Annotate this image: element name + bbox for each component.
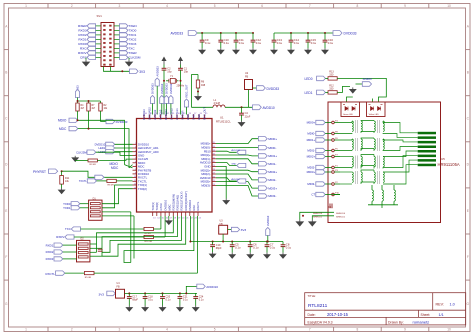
svg-text:GTXC: GTXC <box>159 203 163 211</box>
capacitor C10 <box>220 32 222 34</box>
svg-text:F: F <box>5 255 7 259</box>
svg-text:TXD1: TXD1 <box>128 33 136 37</box>
wire R7 to MDC <box>88 111 90 129</box>
module pin P3 <box>332 171 335 174</box>
svg-text:10k: 10k <box>65 180 70 183</box>
svg-text:AVDD10: AVDD10 <box>231 178 240 181</box>
module pin P5 <box>332 149 335 152</box>
svg-text:9: 9 <box>404 4 406 8</box>
port AVDD33 small <box>216 151 237 152</box>
svg-text:8: 8 <box>357 4 359 8</box>
svg-text:RTL8211: RTL8211 <box>308 303 328 309</box>
svg-text:25MHz: 25MHz <box>177 85 185 88</box>
wire D2 outputs <box>90 243 97 245</box>
svg-text:22: 22 <box>190 217 193 219</box>
port AVDD10 small <box>216 178 237 181</box>
svg-text:AVDD33: AVDD33 <box>363 78 372 81</box>
wire crystal left <box>163 70 165 114</box>
resistor R6 <box>197 75 199 81</box>
staircase wires from U1 bottom <box>97 216 174 244</box>
capacitor C19 <box>212 241 214 243</box>
svg-text:TXER: TXER <box>128 51 137 55</box>
svg-text:RXER: RXER <box>78 24 87 28</box>
svg-text:19p: 19p <box>167 70 172 73</box>
svg-text:EasyEDA V4.9.3: EasyEDA V4.9.3 <box>308 320 333 324</box>
transformer T4 output wires <box>383 160 418 172</box>
svg-text:0.1u: 0.1u <box>166 299 171 302</box>
svg-text:DVDD33: DVDD33 <box>142 109 146 120</box>
svg-text:3V3: 3V3 <box>99 292 105 296</box>
svg-text:RXDV: RXDV <box>56 235 64 239</box>
SV1 ground right <box>128 58 130 60</box>
capacitor C18 <box>144 292 146 294</box>
svg-text:14: 14 <box>157 217 160 219</box>
svg-text:GND: GND <box>197 114 201 120</box>
svg-text:0.1u: 0.1u <box>270 246 276 250</box>
svg-text:DVDD33: DVDD33 <box>151 83 155 94</box>
capacitor C9 <box>201 32 203 34</box>
svg-text:CT: CT <box>311 193 315 197</box>
rj45 pin bars <box>418 132 436 135</box>
svg-text:D: D <box>5 163 8 167</box>
svg-text:21: 21 <box>186 217 189 219</box>
svg-text:LED0: LED0 <box>98 150 105 154</box>
SV1 right pin port TXD2 <box>119 37 128 41</box>
svg-text:RXC: RXC <box>80 47 87 51</box>
port MDI2- ic side <box>216 174 258 180</box>
svg-text:MDI0-: MDI0- <box>307 132 315 136</box>
port MDI3- ic side <box>216 185 258 196</box>
capacitor C24 <box>195 293 197 296</box>
svg-text:RXD2: RXD2 <box>46 250 54 254</box>
svg-text:FB: FB <box>245 76 249 79</box>
ground U1 bottom <box>168 216 170 219</box>
svg-text:10: 10 <box>447 328 451 332</box>
svg-text:TXEN: TXEN <box>128 24 136 28</box>
svg-text:22uF: 22uF <box>245 115 251 118</box>
svg-text:MDC: MDC <box>59 127 67 131</box>
svg-text:2017-10-15: 2017-10-15 <box>327 312 349 317</box>
wire D1 row4 <box>102 215 134 217</box>
wire MDIO <box>78 120 125 164</box>
svg-text:7: 7 <box>309 4 311 8</box>
svg-text:RXCTL: RXCTL <box>46 272 56 276</box>
svg-text:0.1u: 0.1u <box>311 41 317 45</box>
svg-text:GND: GND <box>192 114 196 120</box>
svg-text:G: G <box>467 302 470 306</box>
port MDI0+ ic side <box>216 139 258 144</box>
svg-text:TXC: TXC <box>128 47 135 51</box>
svg-text:330: 330 <box>329 88 334 91</box>
svg-text:MDI1-: MDI1- <box>268 162 276 166</box>
led yellow inside U5 <box>367 102 386 117</box>
wire RXCTL long <box>94 272 198 274</box>
led green inside U5 <box>341 102 360 117</box>
transformer T2 primary winding <box>340 139 352 140</box>
svg-text:VDDSR: VDDSR <box>181 111 185 120</box>
svg-text:Yellow LED: Yellow LED <box>369 114 380 116</box>
svg-text:SHIELD0: SHIELD0 <box>336 213 346 215</box>
capacitor C1 <box>180 65 182 69</box>
SV1 left pin port RXD2 <box>87 33 96 37</box>
svg-text:F: F <box>467 255 469 259</box>
capacitor C5 <box>231 241 233 243</box>
svg-text:948: 948 <box>201 84 206 87</box>
svg-text:AVDD33: AVDD33 <box>171 32 184 36</box>
resistor R5 <box>65 272 85 274</box>
SV1 left pin port RXD3 <box>87 28 96 32</box>
crystal Y1 <box>166 80 169 82</box>
svg-text:SHIELD1: SHIELD1 <box>313 217 323 219</box>
svg-text:16: 16 <box>166 217 169 219</box>
svg-text:1/1: 1/1 <box>439 313 444 317</box>
port 3V3 U3 <box>228 229 232 231</box>
wire U2 down <box>247 90 249 108</box>
svg-text:Green LED: Green LED <box>343 114 354 116</box>
svg-text:MDI3-: MDI3- <box>268 194 276 198</box>
wire U3 down <box>222 234 224 241</box>
svg-text:R7: R7 <box>92 105 96 107</box>
svg-text:AVDD10: AVDD10 <box>263 106 275 110</box>
svg-text:MDC: MDC <box>167 204 171 210</box>
port MDI0- ic side <box>216 146 258 148</box>
wire U2 to DVDD33 <box>253 87 257 89</box>
svg-text:TXD2: TXD2 <box>128 38 136 42</box>
SV1 right pin port TXD0 <box>119 28 128 32</box>
svg-text:68pF: 68pF <box>216 247 222 250</box>
port AVDD10 bottom right <box>197 284 205 289</box>
svg-text:TXD[0]: TXD[0] <box>155 202 159 211</box>
svg-text:RXD[2](AN1): RXD[2](AN1) <box>176 195 180 211</box>
SV1 right pin port CLK25M <box>119 55 128 59</box>
svg-text:A: A <box>467 25 470 29</box>
svg-text:MDI2-: MDI2- <box>268 178 276 182</box>
module pin P8 <box>332 132 335 135</box>
svg-text:AVDD10: AVDD10 <box>160 83 164 94</box>
port AVDD33 LED <box>356 83 363 85</box>
svg-text:5: 5 <box>214 4 216 8</box>
svg-text:CKXTAL1: CKXTAL1 <box>175 108 179 120</box>
transformer T3 primary winding <box>340 156 352 158</box>
wire RXDV long <box>65 235 74 239</box>
svg-text:DVDD10: DVDD10 <box>188 199 192 210</box>
module pin P7 <box>332 155 335 158</box>
svg-text:0.1u: 0.1u <box>253 246 259 250</box>
svg-text:Date:: Date: <box>308 313 316 317</box>
svg-text:U5: U5 <box>441 157 445 161</box>
svg-text:FB: FB <box>117 286 120 289</box>
svg-text:A: A <box>5 25 8 29</box>
svg-text:E: E <box>5 209 7 213</box>
svg-text:DVDD33: DVDD33 <box>344 32 357 36</box>
svg-text:10k: 10k <box>104 108 109 110</box>
ic U1 left pins <box>133 143 137 145</box>
transformer center taps <box>372 190 373 201</box>
capacitor C14 <box>290 32 292 34</box>
svg-text:15: 15 <box>162 217 165 219</box>
svg-text:18: 18 <box>174 217 177 219</box>
capacitor C20 <box>162 292 164 294</box>
SV1 right pin port TXC <box>119 46 128 50</box>
resistor R4 <box>76 103 79 111</box>
svg-text:19p: 19p <box>184 70 189 73</box>
ic U1 left pin numbers <box>134 143 137 189</box>
svg-text:C: C <box>467 117 470 121</box>
svg-text:C: C <box>5 117 8 121</box>
svg-text:24: 24 <box>199 217 202 219</box>
junction R11 <box>61 170 63 172</box>
resistor R11 <box>61 171 63 175</box>
svg-text:TXCTL: TXCTL <box>79 180 88 183</box>
svg-text:R3 0R: R3 0R <box>90 164 97 166</box>
port AVDD10 L1 <box>253 105 262 110</box>
svg-text:RXD1: RXD1 <box>46 243 54 247</box>
svg-text:SHIELD1: SHIELD1 <box>336 217 346 219</box>
svg-text:MDI2-: MDI2- <box>307 166 315 170</box>
svg-text:MDI2+: MDI2+ <box>268 170 277 174</box>
capacitor C4 <box>241 107 243 113</box>
svg-text:TXD1: TXD1 <box>63 206 71 210</box>
module pin P4 <box>332 121 335 124</box>
port MDI3+ ic side <box>216 182 258 189</box>
svg-text:0.1u: 0.1u <box>148 299 153 302</box>
svg-text:R4: R4 <box>81 105 85 107</box>
ground SHIELD0 <box>297 220 304 226</box>
port MDI1- ic side <box>216 159 258 164</box>
svg-text:MDI1+: MDI1+ <box>307 138 316 142</box>
ground LED <box>350 87 356 93</box>
SV1 left pin port RXD1 <box>87 37 96 41</box>
port DVDD33 rail <box>333 31 342 36</box>
wire DVDD33 rail <box>274 32 333 34</box>
svg-text:PHYRST: PHYRST <box>33 170 46 174</box>
svg-text:20: 20 <box>182 217 185 219</box>
svg-text:1: 1 <box>25 4 27 8</box>
svg-text:R10 0R: R10 0R <box>145 241 153 243</box>
ground C4 <box>239 121 245 127</box>
svg-text:CLK25M: CLK25M <box>76 150 87 154</box>
transformer T2 output wires <box>383 139 418 142</box>
svg-text:LED1: LED1 <box>98 146 105 150</box>
svg-text:2: 2 <box>71 328 73 332</box>
svg-text:AVDD33: AVDD33 <box>153 109 157 120</box>
wire D1 row3 <box>102 211 131 213</box>
transformer T1 output wires <box>383 121 418 133</box>
junction L1 <box>241 106 243 108</box>
port 3V3 top <box>130 69 139 74</box>
svg-text:0.1u: 0.1u <box>256 41 262 45</box>
svg-text:MDC: MDC <box>111 166 119 170</box>
capacitor C2 <box>163 65 165 69</box>
svg-text:R2: R2 <box>104 105 108 107</box>
port DVDD33 U2 <box>257 86 266 91</box>
capacitor C8 <box>282 242 284 245</box>
wire R2 to DVDD33 port <box>100 111 102 122</box>
SV1 right pin port TXER <box>119 51 128 55</box>
svg-text:9: 9 <box>404 328 406 332</box>
svg-text:0.1u: 0.1u <box>235 246 241 250</box>
resistor R10 <box>144 235 153 238</box>
svg-text:RXD2: RXD2 <box>78 33 87 37</box>
svg-text:Drawn By:: Drawn By: <box>388 320 404 324</box>
svg-text:0.1u: 0.1u <box>224 41 230 45</box>
transformer T1 primary winding <box>340 121 352 123</box>
svg-text:6: 6 <box>261 328 263 332</box>
power flag C2 <box>162 58 165 65</box>
port MDI2+ ic side <box>216 170 258 172</box>
transformer T4 secondary winding <box>361 172 362 182</box>
svg-text:LED0: LED0 <box>305 77 313 81</box>
svg-text:TXC: TXC <box>65 227 71 231</box>
svg-text:3: 3 <box>119 328 121 332</box>
svg-text:13: 13 <box>153 217 156 219</box>
wire AVDD33 rail <box>197 32 253 34</box>
svg-text:TXD[2]: TXD[2] <box>138 187 147 191</box>
svg-text:AVDD10: AVDD10 <box>206 285 218 289</box>
svg-text:RXC: RXC <box>192 205 196 211</box>
capacitor C15 <box>307 32 309 34</box>
svg-text:DVDD33: DVDD33 <box>164 109 168 120</box>
wire R6 top <box>191 74 198 76</box>
svg-text:G: G <box>5 302 8 306</box>
power flag C1 <box>179 58 182 65</box>
svg-text:REG_OUT: REG_OUT <box>185 84 189 97</box>
ground U1 right <box>216 166 226 198</box>
svg-text:4: 4 <box>166 4 168 8</box>
svg-text:0.1u: 0.1u <box>294 41 300 45</box>
transformer T1 choke winding <box>373 120 375 123</box>
svg-text:RXD3: RXD3 <box>78 29 87 33</box>
svg-text:REV:: REV: <box>436 302 444 306</box>
transformer T3 secondary winding <box>361 157 362 167</box>
svg-text:AVDD33: AVDD33 <box>155 66 159 77</box>
svg-text:RXD[0](RXDLY): RXD[0](RXDLY) <box>184 191 188 210</box>
port GND small <box>216 163 237 166</box>
svg-text:0.1u: 0.1u <box>205 41 211 45</box>
wire CT <box>332 194 340 196</box>
ic U1 top pins <box>143 115 145 119</box>
svg-text:MDI[3]-: MDI[3]- <box>201 184 210 188</box>
svg-text:E: E <box>467 209 469 213</box>
svg-text:DVDD33: DVDD33 <box>165 83 169 94</box>
wire LED anode <box>347 97 353 103</box>
svg-text:MDI0+: MDI0+ <box>268 137 277 141</box>
svg-text:10: 10 <box>447 4 451 8</box>
capacitor C11 <box>235 32 237 34</box>
svg-text:19: 19 <box>178 217 181 219</box>
ground R11 <box>61 184 63 188</box>
svg-text:0.1u: 0.1u <box>277 41 283 45</box>
resistor R2 <box>99 103 102 111</box>
wire pullup rail <box>77 98 79 104</box>
svg-text:RXDV: RXDV <box>78 51 88 55</box>
svg-text:MDI0-: MDI0- <box>268 146 276 150</box>
svg-text:MDI1-: MDI1- <box>307 149 315 153</box>
svg-text:6: 6 <box>261 4 263 8</box>
SV1 right pin port TXD1 <box>119 33 128 37</box>
svg-text:R5 0R: R5 0R <box>85 277 92 279</box>
svg-text:Sheet:: Sheet: <box>421 313 431 317</box>
svg-text:D: D <box>467 163 470 167</box>
svg-text:MDI3-: MDI3- <box>307 182 315 186</box>
ic U1 bottom pins <box>152 212 154 216</box>
rj45 module U5 body <box>328 102 441 223</box>
svg-text:1: 1 <box>25 328 27 332</box>
svg-text:DVDD10: DVDD10 <box>163 199 167 210</box>
svg-text:GND: GND <box>231 163 236 165</box>
svg-text:B: B <box>467 71 469 75</box>
svg-text:7: 7 <box>309 328 311 332</box>
SV1 right pin port TXD3 <box>119 42 128 46</box>
svg-text:RXD[3](MXN): RXD[3](MXN) <box>172 194 176 211</box>
svg-text:CLK25M: CLK25M <box>128 56 140 60</box>
module pin P10 <box>332 193 335 196</box>
svg-text:MDIO: MDIO <box>58 119 67 123</box>
svg-text:AVDD33: AVDD33 <box>231 149 240 152</box>
ic U1 right pins <box>212 143 216 145</box>
svg-text:HR911105A: HR911105A <box>438 162 460 167</box>
svg-text:MDI3+: MDI3+ <box>268 186 277 190</box>
SV1 ground left <box>85 58 87 60</box>
svg-text:17: 17 <box>170 217 173 219</box>
svg-text:0.1u: 0.1u <box>328 41 334 45</box>
svg-text:TXD0: TXD0 <box>128 29 136 33</box>
svg-text:TXD[1]: TXD[1] <box>151 202 155 211</box>
svg-text:AVDD10: AVDD10 <box>266 215 270 226</box>
wire R4 to MDIO <box>77 111 79 120</box>
ic U1 right pin numbers <box>213 142 216 186</box>
svg-text:SHIELD0: SHIELD0 <box>313 213 323 215</box>
transformer T4 primary winding <box>340 171 352 173</box>
svg-text:5: 5 <box>214 328 216 332</box>
module pin P1 <box>332 166 335 169</box>
ic U1 RTL8211CL body <box>137 119 213 213</box>
svg-text:3V3: 3V3 <box>241 228 247 232</box>
transformer T2 choke winding <box>373 138 375 139</box>
svg-text:C18: C18 <box>328 207 333 209</box>
svg-text:68pF: 68pF <box>132 299 138 302</box>
port PHYRSTB inline <box>95 175 104 179</box>
wire SHIELD0 <box>300 212 334 219</box>
transformer T3 choke winding <box>373 155 375 157</box>
svg-text:TXD3: TXD3 <box>128 42 136 46</box>
svg-text:B: B <box>5 71 7 75</box>
SV1 left pin port CRS <box>87 55 96 59</box>
port MDI1+ ic side <box>216 154 258 157</box>
vertical bus wires <box>130 212 132 263</box>
svg-text:REG_OUT: REG_OUT <box>203 107 207 120</box>
svg-text:AVDD33: AVDD33 <box>169 83 173 94</box>
svg-text:LED2/AD2: LED2/AD2 <box>148 107 152 120</box>
wire MDIO cross <box>125 165 133 168</box>
wire TXD2 to D1 <box>102 189 133 204</box>
svg-text:SV1: SV1 <box>97 14 103 18</box>
svg-text:R8 0R: R8 0R <box>108 185 115 187</box>
svg-text:romanetz: romanetz <box>413 319 430 324</box>
svg-text:1.0: 1.0 <box>450 302 455 306</box>
svg-text:0.1u: 0.1u <box>286 246 292 250</box>
ic U1 bottom pin numbers <box>153 217 201 219</box>
svg-text:RXD0: RXD0 <box>78 42 87 46</box>
SV1 left pin port RXC <box>87 46 96 50</box>
svg-text:0.1u: 0.1u <box>183 299 188 302</box>
wire MDC <box>78 129 129 168</box>
wire LED1 net <box>337 86 350 92</box>
module pin P2 <box>332 183 335 186</box>
svg-text:RXD3: RXD3 <box>46 257 54 261</box>
wire TXC long <box>71 227 80 231</box>
wire SV1 to 3V3 <box>104 67 130 72</box>
